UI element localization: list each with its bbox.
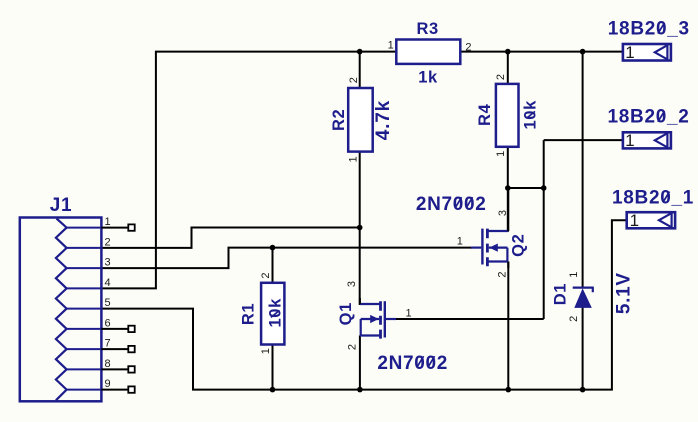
junction top rail R4 (505, 49, 511, 55)
svg-text:1: 1 (630, 211, 639, 230)
svg-text:3: 3 (346, 281, 358, 287)
svg-text:8: 8 (105, 358, 111, 370)
svg-text:5.1V: 5.1V (614, 272, 635, 314)
wire J1 pin3 net to R1 top and Q2 gate (101, 248, 472, 269)
junction top rail D1 (580, 49, 586, 55)
svg-text:1: 1 (495, 151, 507, 157)
resistor R4 body (496, 84, 519, 147)
svg-text:18B20_2: 18B20_2 (607, 107, 689, 128)
connector 18B20_3 (623, 44, 671, 61)
svg-text:Q2: Q2 (509, 234, 527, 257)
svg-text:2: 2 (465, 41, 471, 53)
svg-text:D1: D1 (552, 283, 570, 305)
wire link R4 bottom node to 543 vertical (508, 187, 544, 189)
junction D1 anode rail (580, 387, 586, 393)
wire D1 anode to bottom rail (582, 308, 584, 390)
wire Q2 source down to bottom rail (507, 262, 509, 390)
svg-text:2: 2 (495, 74, 507, 80)
svg-text:3: 3 (105, 257, 111, 269)
wire R1 bottom lead (272, 345, 274, 390)
junction R4 bottom (505, 185, 511, 191)
svg-text:1: 1 (625, 43, 634, 62)
J1 pin6 stub and pad (101, 326, 134, 332)
junction 543 vertical (541, 185, 547, 191)
svg-text:1: 1 (625, 131, 634, 150)
junction Q2 source rail (506, 387, 512, 393)
svg-text:1: 1 (105, 216, 111, 228)
junction R1 top (270, 245, 276, 251)
svg-text:3: 3 (497, 210, 509, 216)
wire R4 bottom to Q2 drain (488, 147, 508, 231)
J1 pin7 stub and pad (101, 346, 134, 352)
wire top rail left from J1 pin4 riser to R3 pin1 (101, 52, 396, 289)
resistor R3 body (396, 40, 460, 64)
slashed zero marks on value texts (271, 23, 670, 367)
svg-text:2: 2 (260, 273, 272, 279)
svg-text:2: 2 (105, 236, 111, 248)
svg-text:2: 2 (348, 77, 360, 83)
svg-text:18B20_3: 18B20_3 (608, 19, 690, 40)
junction Q1 source rail (357, 387, 363, 393)
J1 pin1 stub and pad (101, 224, 134, 230)
wire R1 top lead (272, 248, 274, 283)
svg-text:18B20_1: 18B20_1 (612, 187, 694, 208)
diode D1 (5.1V zener) (573, 288, 594, 308)
wire Q1 gate net (396, 318, 544, 320)
svg-text:1: 1 (260, 348, 272, 354)
junction pin2 net R2 vertical (357, 225, 363, 231)
svg-text:1k: 1k (418, 69, 438, 87)
junction top rail R2 (357, 49, 363, 55)
svg-text:R2: R2 (330, 109, 348, 131)
svg-text:1: 1 (405, 308, 411, 320)
svg-text:Q1: Q1 (337, 302, 355, 325)
svg-text:2N7002: 2N7002 (416, 194, 487, 215)
wire to 18B20_2 (544, 139, 623, 141)
svg-text:5: 5 (105, 297, 111, 309)
svg-text:2: 2 (496, 272, 508, 278)
wire R2 top lead (359, 52, 361, 88)
svg-text:1: 1 (388, 39, 394, 51)
J1 pin9 stub and pad (101, 386, 134, 392)
wire D1 cathode from top rail (582, 52, 584, 287)
wire 543 vertical from 18B20_2 line down to Q1 gate net (543, 140, 545, 319)
svg-text:6: 6 (105, 317, 111, 329)
wire R2 bottom to Q1 drain (360, 152, 378, 304)
svg-text:7: 7 (105, 338, 111, 350)
svg-text:1: 1 (347, 156, 359, 162)
junction R1 bottom rail (270, 387, 276, 393)
svg-text:4: 4 (105, 277, 111, 289)
svg-text:R1: R1 (240, 303, 258, 325)
svg-text:2: 2 (568, 316, 580, 322)
svg-text:R4: R4 (476, 103, 494, 126)
wire R4 top lead (507, 52, 509, 84)
wire J1 pin2 net to R2/Q1 vertical (101, 228, 359, 248)
resistor R2 body (348, 88, 373, 152)
connector J1 body (20, 218, 102, 402)
transistor Q2 (2N7002 N-MOSFET) (471, 188, 508, 268)
svg-text:J1: J1 (50, 195, 73, 216)
wire top rail right from R3 pin2 to 18B20_3 (460, 51, 623, 53)
transistor Q1 (2N7002 N-MOSFET, mirrored) (360, 298, 396, 339)
resistor R1 body (261, 283, 284, 345)
svg-text:1: 1 (457, 235, 463, 247)
connector 18B20_1 (627, 212, 675, 228)
wire J1 pin5 net bottom rail to 18B20_1 (101, 220, 626, 389)
J1 pin8 stub and pad (101, 366, 134, 372)
svg-text:4.7k: 4.7k (373, 100, 394, 140)
svg-text:R3: R3 (416, 20, 438, 38)
connector 18B20_2 (623, 132, 671, 148)
svg-text:9: 9 (105, 378, 111, 390)
svg-text:2: 2 (346, 344, 358, 350)
wire Q1 source down to bottom rail (359, 336, 361, 390)
svg-text:2N7002: 2N7002 (377, 353, 448, 374)
svg-text:1: 1 (568, 272, 580, 278)
